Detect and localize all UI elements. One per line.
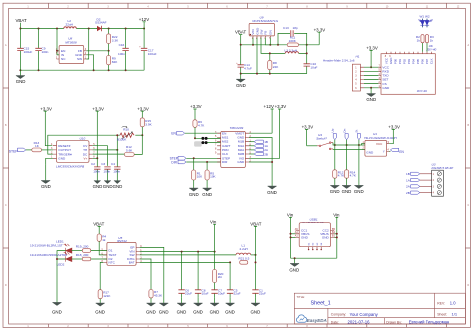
wire row B bbox=[333, 148, 365, 150]
svg-text:GND: GND bbox=[354, 189, 364, 194]
svg-text:22K: 22K bbox=[273, 65, 279, 69]
ground GND (R5) bbox=[203, 188, 212, 191]
svg-text:GND: GND bbox=[251, 310, 261, 315]
net port 1A bbox=[249, 145, 254, 147]
ground GND (R12b) bbox=[330, 186, 339, 189]
capacitor C15 bbox=[19, 29, 21, 71]
wire R6 to MS1 bbox=[194, 127, 196, 138]
wire MS1/MS2 stubs bbox=[195, 138, 221, 142]
svg-text:GND: GND bbox=[389, 58, 393, 64]
wire SW row to L1 bbox=[140, 254, 236, 256]
svg-text:82K: 82K bbox=[112, 60, 118, 64]
wire VMOT row bbox=[249, 132, 272, 134]
inductor L2 bbox=[64, 27, 76, 29]
svg-text:Vin: Vin bbox=[333, 212, 340, 217]
wire GND net (tmc) bbox=[249, 138, 272, 187]
svg-text:+3.3V: +3.3V bbox=[314, 27, 326, 32]
svg-text:FB: FB bbox=[264, 31, 268, 35]
wire STEP to R13 bbox=[26, 149, 32, 151]
wire NTC to R17 bbox=[100, 262, 103, 289]
svg-text:GND: GND bbox=[330, 189, 340, 194]
svg-text:GND: GND bbox=[225, 310, 235, 315]
wire L3 right to C10 node bbox=[299, 45, 307, 54]
svg-text:JDY-40: JDY-40 bbox=[426, 47, 436, 51]
ground GND (LEDs) bbox=[53, 303, 62, 306]
ground GND (sw3) bbox=[354, 186, 363, 189]
resistor R19_200 bbox=[72, 250, 83, 252]
wire GND left bbox=[291, 236, 296, 238]
wire SW pin to L3 bbox=[261, 38, 285, 54]
wire EN pin to bus bbox=[265, 38, 270, 45]
svg-text:10K: 10K bbox=[210, 175, 216, 179]
svg-text:5.6K: 5.6K bbox=[126, 148, 133, 152]
svg-text:JDY-40: JDY-40 bbox=[417, 89, 427, 93]
svg-text:GND: GND bbox=[146, 310, 156, 315]
resistor R12 bbox=[124, 153, 134, 157]
ground GND (H1) bbox=[370, 88, 372, 94]
capacitor C10 bbox=[304, 64, 310, 66]
ground GND (buck) bbox=[240, 74, 242, 80]
svg-text:EasyEDA: EasyEDA bbox=[307, 318, 327, 323]
wires H1 to JDY-40 bbox=[364, 67, 378, 88]
resistor R7 bbox=[149, 290, 153, 298]
svg-text:GND: GND bbox=[301, 236, 309, 240]
svg-text:100K: 100K bbox=[289, 39, 297, 43]
svg-text:+3.3V: +3.3V bbox=[275, 104, 287, 109]
svg-text:NCP1529ASNT1G: NCP1529ASNT1G bbox=[252, 19, 278, 23]
svg-text:DIR: DIR bbox=[171, 160, 177, 164]
svg-text:Vin: Vin bbox=[210, 219, 217, 224]
svg-text:B100K: B100K bbox=[117, 137, 127, 141]
wire LED chains bbox=[423, 19, 428, 52]
jumper pads MS1/MS2 bbox=[194, 141, 202, 146]
svg-text:Your Company: Your Company bbox=[350, 312, 379, 317]
LED LED3 (blue) bbox=[418, 19, 424, 28]
title block bbox=[294, 293, 465, 324]
svg-text:10uF: 10uF bbox=[310, 66, 317, 70]
svg-text:100uF: 100uF bbox=[148, 52, 157, 56]
diode D2 bbox=[96, 28, 102, 30]
resistor R15 bbox=[140, 118, 144, 127]
svg-text:Date:: Date: bbox=[331, 320, 339, 324]
svg-text:GND: GND bbox=[366, 97, 376, 102]
svg-text:GND: GND bbox=[210, 310, 220, 315]
svg-text:19-21/G6W-BL2R/L1ST: 19-21/G6W-BL2R/L1ST bbox=[30, 244, 63, 248]
svg-text:EN: EN bbox=[269, 30, 273, 34]
shield pins bbox=[309, 247, 322, 250]
inductor L3 bbox=[285, 52, 298, 54]
svg-text:C13: C13 bbox=[283, 26, 289, 30]
svg-text:P03: P03 bbox=[407, 59, 411, 65]
wire C10 branch bbox=[306, 53, 308, 73]
net flag EN (U1 out) bbox=[389, 151, 390, 153]
svg-text:+3.3V: +3.3V bbox=[92, 106, 104, 111]
svg-text:GND: GND bbox=[382, 86, 390, 90]
svg-text:2.2uH: 2.2uH bbox=[240, 247, 248, 251]
ground GND (C4) bbox=[116, 173, 118, 181]
wire N1 down to R12 bbox=[134, 135, 142, 154]
ground GND (C2) bbox=[96, 173, 98, 181]
resistor R2 1k bbox=[421, 35, 424, 43]
ground GND (block1) bbox=[19, 70, 21, 76]
svg-text:BAT: BAT bbox=[129, 261, 135, 265]
junction dots top bus bbox=[19, 28, 145, 30]
svg-text:V+: V+ bbox=[84, 157, 88, 161]
terminal box U3 bbox=[432, 170, 444, 196]
svg-text:GND: GND bbox=[93, 184, 103, 189]
wire STEP row bbox=[186, 157, 221, 159]
ground GND (usb) bbox=[294, 258, 296, 263]
wire R4 to TEST bbox=[99, 241, 107, 255]
svg-text:LED2: LED2 bbox=[57, 263, 65, 267]
svg-text:100n: 100n bbox=[42, 50, 49, 54]
junction dots bottom bus bbox=[19, 69, 126, 71]
resistor R18_200 bbox=[72, 258, 83, 260]
svg-text:P04: P04 bbox=[411, 59, 415, 65]
svg-text:SW: SW bbox=[77, 57, 82, 61]
svg-text:1k: 1k bbox=[102, 238, 106, 242]
wire VBAT/FB bus bbox=[241, 44, 320, 46]
svg-text:P01: P01 bbox=[398, 59, 402, 65]
svg-text:VBAT: VBAT bbox=[16, 18, 27, 23]
wire ICHG row to R7 bbox=[140, 259, 151, 290]
svg-text:NTC: NTC bbox=[109, 260, 116, 264]
wire VBUS right bbox=[334, 233, 337, 235]
svg-text:Vin: Vin bbox=[287, 212, 294, 217]
svg-text:GND: GND bbox=[366, 150, 374, 154]
inductor L1 bbox=[236, 253, 251, 255]
LED LED4 (blue) bbox=[425, 19, 433, 28]
wire VIN pin to bus bbox=[252, 38, 254, 45]
svg-text:EN: EN bbox=[399, 150, 404, 154]
wire third drop bbox=[358, 145, 360, 186]
svg-text:GND: GND bbox=[16, 79, 26, 84]
IC U8 MT3608 bbox=[59, 46, 84, 64]
svg-text:Sheet_1: Sheet_1 bbox=[311, 300, 331, 306]
trimmer R10 B100K bbox=[135, 134, 142, 136]
svg-text:100n: 100n bbox=[103, 170, 110, 174]
svg-text:GND: GND bbox=[322, 236, 330, 240]
net port flag vert 2 bbox=[345, 134, 348, 140]
net port flag vert 1 bbox=[333, 134, 336, 140]
capacitor C17 bbox=[143, 29, 145, 71]
svg-text:GND: GND bbox=[267, 190, 277, 195]
wire VBUS left bbox=[291, 233, 296, 235]
ground GND (C5) bbox=[229, 298, 231, 304]
svg-text:4.7K: 4.7K bbox=[338, 174, 345, 178]
svg-text:GND: GND bbox=[58, 157, 66, 161]
wire GND right bbox=[334, 236, 337, 238]
svg-text:GND: GND bbox=[236, 83, 246, 88]
ground GND (R14) bbox=[342, 186, 351, 189]
svg-text:P02: P02 bbox=[402, 59, 406, 65]
ground GND (C8) bbox=[197, 298, 199, 304]
svg-text:GND: GND bbox=[237, 160, 245, 164]
svg-text:4.7uF: 4.7uF bbox=[244, 67, 252, 71]
ground GND (C3) bbox=[107, 173, 109, 181]
wire VIN row bbox=[140, 251, 215, 253]
wire R15 to node N1 bbox=[141, 127, 143, 135]
svg-text:C2: C2 bbox=[91, 162, 95, 166]
ground GND (555) bbox=[45, 164, 47, 181]
svg-text:45.3K: 45.3K bbox=[154, 293, 163, 297]
capacitor C16 bbox=[125, 29, 127, 71]
capacitor C4 bbox=[114, 167, 120, 169]
svg-text:2021-07-16: 2021-07-16 bbox=[348, 320, 371, 325]
wire GND pin bbox=[46, 158, 53, 164]
svg-text:+3.3V: +3.3V bbox=[366, 46, 378, 51]
svg-text:W1 W2: W1 W2 bbox=[420, 15, 430, 19]
wire FB to divider bbox=[86, 50, 108, 52]
svg-text:74LVC1G02DW-O100H: 74LVC1G02DW-O100H bbox=[364, 136, 398, 140]
svg-text:GND: GND bbox=[289, 267, 299, 272]
resistor R4 1k bbox=[97, 234, 101, 241]
svg-text:+12V: +12V bbox=[139, 17, 149, 22]
svg-text:SS34AF: SS34AF bbox=[95, 21, 107, 25]
capacitor C2 bbox=[96, 158, 98, 173]
capacitor C3 bbox=[104, 167, 110, 169]
wire TRIG/TH vertical to C4 bbox=[116, 135, 118, 173]
svg-text:GND: GND bbox=[103, 184, 113, 189]
IC U9 NCP1529 bbox=[249, 23, 274, 36]
resistor R11b 4.7K bbox=[334, 145, 336, 170]
svg-text:121K: 121K bbox=[103, 294, 111, 298]
svg-text:Y: Y bbox=[383, 150, 385, 154]
capacitor C6 bbox=[181, 252, 183, 298]
svg-text:4.7K: 4.7K bbox=[350, 174, 357, 178]
svg-text:2B: 2B bbox=[406, 191, 410, 195]
svg-text:STEP: STEP bbox=[9, 149, 19, 153]
svg-text:4.7K: 4.7K bbox=[198, 123, 205, 127]
wire LED cathodes to GND bbox=[57, 251, 66, 303]
ground GND (C1) bbox=[255, 298, 257, 304]
svg-text:22uF: 22uF bbox=[234, 292, 241, 296]
svg-text:1k: 1k bbox=[417, 38, 421, 42]
svg-text:2B: 2B bbox=[264, 152, 268, 156]
svg-text:3.9K: 3.9K bbox=[145, 123, 152, 127]
svg-text:22uF: 22uF bbox=[185, 292, 192, 296]
svg-text:IP2312: IP2312 bbox=[117, 239, 127, 243]
svg-text:GND: GND bbox=[95, 310, 105, 315]
svg-text:P00: P00 bbox=[393, 59, 397, 65]
resistor R13 bbox=[32, 148, 42, 152]
svg-text:VBAT: VBAT bbox=[235, 30, 246, 35]
IC U1 74LVC1G02 bbox=[365, 140, 387, 156]
svg-text:P05: P05 bbox=[416, 59, 420, 65]
junction dots bus bbox=[240, 44, 308, 46]
svg-text:R10: R10 bbox=[123, 128, 129, 132]
svg-text:Drawn By:: Drawn By: bbox=[386, 320, 402, 324]
svg-text:P06: P06 bbox=[420, 59, 424, 65]
svg-text:St: St bbox=[355, 130, 359, 133]
wire FB pin to bus bbox=[269, 38, 271, 45]
svg-text:100n: 100n bbox=[113, 170, 120, 174]
svg-text:19-213SURC/S530-A2TR8: 19-213SURC/S530-A2TR8 bbox=[30, 253, 67, 257]
ground GND (C7) bbox=[214, 298, 216, 304]
svg-text:3.3K: 3.3K bbox=[112, 39, 119, 43]
capacitor C13 (feedback) bbox=[278, 33, 307, 44]
IC U7 TMC2209 bbox=[221, 131, 246, 167]
wire EN row bbox=[185, 132, 221, 134]
svg-text:GND: GND bbox=[193, 310, 203, 315]
svg-text:U10: U10 bbox=[80, 137, 86, 141]
module U6 JDY-40 bbox=[381, 54, 435, 95]
svg-text:100n: 100n bbox=[93, 170, 100, 174]
resistor R3 1k bbox=[425, 35, 428, 43]
svg-text:+3.3V: +3.3V bbox=[190, 104, 202, 109]
svg-text:P07: P07 bbox=[425, 59, 429, 65]
resistor R5 10K bbox=[206, 162, 208, 170]
svg-text:10K: 10K bbox=[197, 175, 203, 179]
svg-text:100n: 100n bbox=[118, 52, 125, 56]
wire SW pin up to L2/D2 node bbox=[86, 29, 88, 60]
svg-text:Sheet:: Sheet: bbox=[437, 313, 447, 317]
wire R13 to OUTPUT bbox=[42, 149, 53, 151]
capacitor C7 bbox=[214, 283, 216, 298]
svg-text:GND: GND bbox=[113, 184, 123, 189]
svg-text:H1: H1 bbox=[356, 55, 360, 59]
wire GND pin down bbox=[86, 55, 93, 70]
svg-text:R21 0.5: R21 0.5 bbox=[239, 256, 250, 260]
svg-text:Dn: Dn bbox=[342, 128, 346, 132]
ground GND (R17) bbox=[96, 303, 105, 306]
svg-text:1.0: 1.0 bbox=[450, 301, 456, 306]
wire TRIGGER loop to TH/C4 node bbox=[48, 135, 120, 154]
JDY-40 top pins bbox=[387, 52, 432, 54]
net port 2A bbox=[249, 149, 254, 151]
svg-text:GND: GND bbox=[159, 310, 169, 315]
net port 2B bbox=[249, 153, 254, 155]
wire B input bbox=[333, 148, 365, 150]
resistor R22 bbox=[108, 29, 110, 51]
svg-text:Company:: Company: bbox=[331, 313, 347, 317]
svg-text:2Ω: 2Ω bbox=[218, 275, 223, 279]
resistor R9 bbox=[108, 51, 110, 70]
wire EN/IN from bus bbox=[57, 29, 59, 55]
svg-text:REV:: REV: bbox=[437, 302, 445, 306]
wire row A bbox=[333, 143, 365, 145]
svg-text:1B: 1B bbox=[406, 172, 410, 176]
IC U10 LMC555 bbox=[57, 141, 90, 163]
resistor R6 bbox=[193, 120, 197, 128]
resistor R21 0.5 bbox=[240, 261, 248, 265]
capacitor C9 bbox=[38, 29, 40, 71]
svg-text:Евгений Гильдерман: Евгений Гильдерман bbox=[409, 320, 450, 325]
svg-text:VCC: VCC bbox=[376, 142, 383, 146]
ground GND (R1) bbox=[189, 188, 198, 191]
svg-text:C4: C4 bbox=[111, 162, 115, 166]
svg-text:EN: EN bbox=[171, 131, 176, 135]
svg-text:Header-Male 2.54_1x6: Header-Male 2.54_1x6 bbox=[323, 59, 355, 63]
svg-text:22uH: 22uH bbox=[66, 23, 73, 27]
svg-text:+3.3V: +3.3V bbox=[302, 125, 314, 130]
capacitor C5 bbox=[229, 262, 231, 297]
wire EP row to GND bbox=[140, 247, 164, 303]
ground GND (tmc) bbox=[268, 186, 277, 189]
svg-text:+3.3V: +3.3V bbox=[40, 106, 52, 111]
svg-text:NC: NC bbox=[61, 57, 66, 61]
resistor R14 4.7K bbox=[346, 145, 348, 170]
resistor R11 100K (on fb line) bbox=[287, 43, 298, 47]
wire bottom bus (buck) bbox=[241, 73, 307, 75]
capacitor C14 bbox=[240, 45, 242, 74]
wire CV to C3 bbox=[93, 146, 108, 173]
svg-text:TMC2209: TMC2209 bbox=[230, 126, 244, 130]
svg-text:R19_200: R19_200 bbox=[76, 244, 89, 248]
svg-text:Up: Up bbox=[331, 128, 335, 132]
svg-text:GND: GND bbox=[342, 189, 352, 194]
wire BAT row bbox=[140, 261, 230, 263]
svg-text:GND: GND bbox=[41, 184, 51, 189]
svg-text:CLK: CLK bbox=[429, 58, 433, 64]
wire top bus bbox=[20, 28, 144, 30]
wire DIR row bbox=[186, 161, 221, 163]
svg-text:GND: GND bbox=[189, 192, 199, 197]
svg-text:LMC555CMX/NOPB: LMC555CMX/NOPB bbox=[56, 165, 84, 169]
ground GND (R7) bbox=[147, 303, 156, 306]
svg-text:1k: 1k bbox=[430, 38, 434, 42]
resistor R17 bbox=[98, 290, 102, 299]
svg-text:18p: 18p bbox=[293, 26, 298, 30]
svg-text:R18_200: R18_200 bbox=[76, 253, 89, 257]
IC U5 IP2312 bbox=[107, 242, 136, 265]
net port flag vert 3 bbox=[357, 134, 360, 140]
svg-text:22uF: 22uF bbox=[259, 292, 266, 296]
svg-text:10uF: 10uF bbox=[202, 292, 209, 296]
svg-text:C3: C3 bbox=[101, 162, 105, 166]
EasyEDA logo bbox=[296, 315, 326, 323]
svg-text:100uF: 100uF bbox=[24, 50, 33, 54]
wire VBAT stem bbox=[19, 23, 21, 29]
resistor R20 2R bbox=[214, 252, 216, 270]
wire bottom bus bbox=[20, 69, 144, 71]
svg-text:L3 3.3uH: L3 3.3uH bbox=[285, 49, 298, 53]
svg-text:Switch?: Switch? bbox=[316, 136, 327, 140]
svg-text:VBAT: VBAT bbox=[93, 222, 104, 227]
svg-text:GND: GND bbox=[177, 310, 187, 315]
svg-text:+12V: +12V bbox=[264, 104, 274, 109]
capacitor C8 bbox=[197, 252, 199, 298]
svg-text:+3.3V: +3.3V bbox=[137, 106, 149, 111]
svg-text:VBAT: VBAT bbox=[250, 222, 261, 227]
ground GND (EP) bbox=[159, 303, 168, 306]
wire to switch bbox=[307, 145, 317, 147]
svg-text:10uF: 10uF bbox=[218, 292, 225, 296]
svg-text:1/1: 1/1 bbox=[452, 312, 458, 317]
wire GND pin down bbox=[256, 38, 258, 74]
wire usb bottom bbox=[291, 257, 337, 259]
ground GND (C6) bbox=[181, 298, 183, 304]
svg-text:VCC: VCC bbox=[384, 58, 388, 64]
svg-text:MT3608: MT3608 bbox=[65, 40, 77, 44]
wire DC row to R12 bbox=[93, 153, 125, 155]
svg-text:GND: GND bbox=[202, 192, 212, 197]
wire TH row bbox=[93, 149, 118, 151]
svg-text:+3.3V: +3.3V bbox=[388, 125, 400, 130]
svg-text:DG308-5.08-4P: DG308-5.08-4P bbox=[432, 166, 455, 170]
svg-text:DIR: DIR bbox=[222, 160, 228, 164]
wire A input bbox=[361, 144, 364, 145]
resistor R8 bbox=[269, 53, 271, 73]
capacitor C1 bbox=[255, 293, 257, 297]
svg-text:TITLE:: TITLE: bbox=[297, 295, 306, 299]
svg-text:GND: GND bbox=[52, 310, 62, 315]
svg-text:C16: C16 bbox=[119, 43, 125, 47]
junction dot divider bbox=[108, 50, 110, 52]
net port 1B bbox=[249, 141, 254, 143]
resistor R1 10K bbox=[193, 158, 195, 170]
